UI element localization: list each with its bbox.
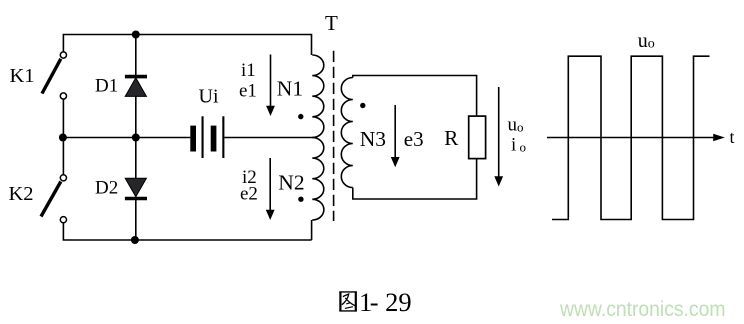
polarity dot N1 xyxy=(298,114,303,119)
svg-text:D2: D2 xyxy=(95,178,118,199)
transformer secondary winding N3 xyxy=(341,78,353,188)
node middle xyxy=(132,134,140,142)
svg-text:D1: D1 xyxy=(95,76,118,97)
switch K1 xyxy=(42,52,67,99)
svg-text:1-29: 1-29 xyxy=(359,287,412,317)
svg-text:t: t xyxy=(730,127,735,147)
svg-text:e1: e1 xyxy=(239,81,257,102)
node middle left xyxy=(59,134,67,142)
node top xyxy=(132,31,140,39)
wire middle rail xyxy=(63,137,190,139)
wire K1 to middle rail xyxy=(62,99,64,137)
arrow e3 xyxy=(391,105,400,167)
waveform square wave uo xyxy=(552,56,710,219)
wire D1 to middle xyxy=(135,96,137,178)
svg-text:e2: e2 xyxy=(240,183,258,204)
battery Ui xyxy=(190,116,224,158)
node bottom xyxy=(131,236,139,244)
resistor R xyxy=(469,116,486,159)
svg-text:i1: i1 xyxy=(241,60,256,81)
arrow uo io xyxy=(494,87,503,187)
arrow i2 e2 xyxy=(266,158,275,220)
wire battery to center tap xyxy=(224,137,313,139)
arrow i1 e1 xyxy=(266,55,275,117)
svg-text:K1: K1 xyxy=(10,65,35,87)
wire D2 to bottom rail xyxy=(135,199,137,241)
wire primary bottom stub xyxy=(311,220,313,240)
caption 图1-29 : hand-drawn 图 glyph xyxy=(339,292,357,312)
svg-text:R: R xyxy=(444,126,458,150)
waveform axis t xyxy=(547,134,725,141)
polarity dot N2 xyxy=(298,197,303,202)
transformer core dashed line xyxy=(333,51,335,221)
svg-text:N1: N1 xyxy=(277,76,303,100)
svg-text:uo: uo xyxy=(508,115,524,136)
wire bottom rail xyxy=(63,223,311,240)
polarity dot N3 xyxy=(360,103,365,108)
diode D2 xyxy=(125,178,147,198)
svg-text:T: T xyxy=(325,11,338,35)
svg-text:N2: N2 xyxy=(278,171,304,195)
svg-text:i o: i o xyxy=(511,135,526,156)
svg-text:N3: N3 xyxy=(360,127,386,151)
wire secondary loop bottom xyxy=(353,159,477,199)
svg-text:www.cntronics.com: www.cntronics.com xyxy=(559,297,725,321)
switch K2 xyxy=(41,138,67,223)
transformer primary winding N1 xyxy=(312,55,324,138)
svg-text:uo: uo xyxy=(638,30,655,52)
wire secondary loop top xyxy=(353,76,477,117)
svg-text:K2: K2 xyxy=(9,183,34,205)
wire top rail xyxy=(63,35,311,56)
svg-text:Ui: Ui xyxy=(199,86,219,108)
diode D1 xyxy=(125,77,147,97)
caption text 1-29 xyxy=(359,287,412,317)
transformer primary winding N2 xyxy=(312,138,324,221)
svg-text:e3: e3 xyxy=(404,127,424,151)
wire diode branch upper xyxy=(135,35,137,78)
